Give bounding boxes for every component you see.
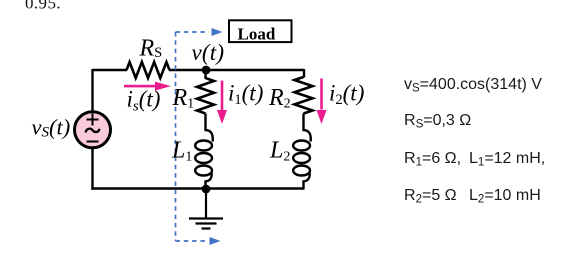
svg-text:vS=400.cos(314t) V: vS=400.cos(314t) V [404,76,542,95]
wire: bottom horizontal [91,187,304,189]
wire: R2 branch top corner [303,69,305,78]
svg-text:Load: Load [238,25,276,44]
svg-text:R2=5 Ω: R2=5 Ω [404,187,457,206]
ground [189,189,223,229]
wire: left vertical, bottom lead of source [91,148,93,190]
svg-text:0.95.: 0.95. [25,0,61,13]
Load box [229,20,292,42]
inductor L1 [195,114,213,190]
inductor L2 [293,114,311,190]
dashed arrow at bottom [176,240,208,242]
wire: left vertical, top lead of source [91,69,93,112]
current arrow i1 [217,81,227,125]
current arrow i2 [317,79,327,125]
voltage source plus sign [87,114,99,126]
voltage source minus sign [87,141,99,143]
voltage source tilde [86,129,100,133]
node dot at ground junction [202,185,211,194]
svg-text:v(t): v(t) [192,40,225,65]
wire: top horizontal from source to RS [93,69,128,71]
svg-text:vS(t): vS(t) [32,115,71,141]
dashed arrow to Load box (top) [176,31,210,33]
node v(t) dot [202,66,211,75]
resistor R2 [295,77,313,114]
wire: stub from node to R1 [204,70,206,79]
resistor R1 [197,78,214,114]
svg-text:RS=0,3 Ω: RS=0,3 Ω [404,112,471,131]
svg-text:i2(t): i2(t) [329,81,364,109]
svg-text:i1(t): i1(t) [228,81,263,109]
resistor RS [127,62,170,78]
dashed load boundary: vertical line [175,32,177,241]
svg-text:is(t): is(t) [127,87,161,115]
svg-text:R1=6 Ω,: R1=6 Ω, [404,150,461,169]
wire: top horizontal from RS to R2 branch [169,69,304,71]
voltage source vS circle [75,112,111,148]
current arrow is [124,82,171,91]
